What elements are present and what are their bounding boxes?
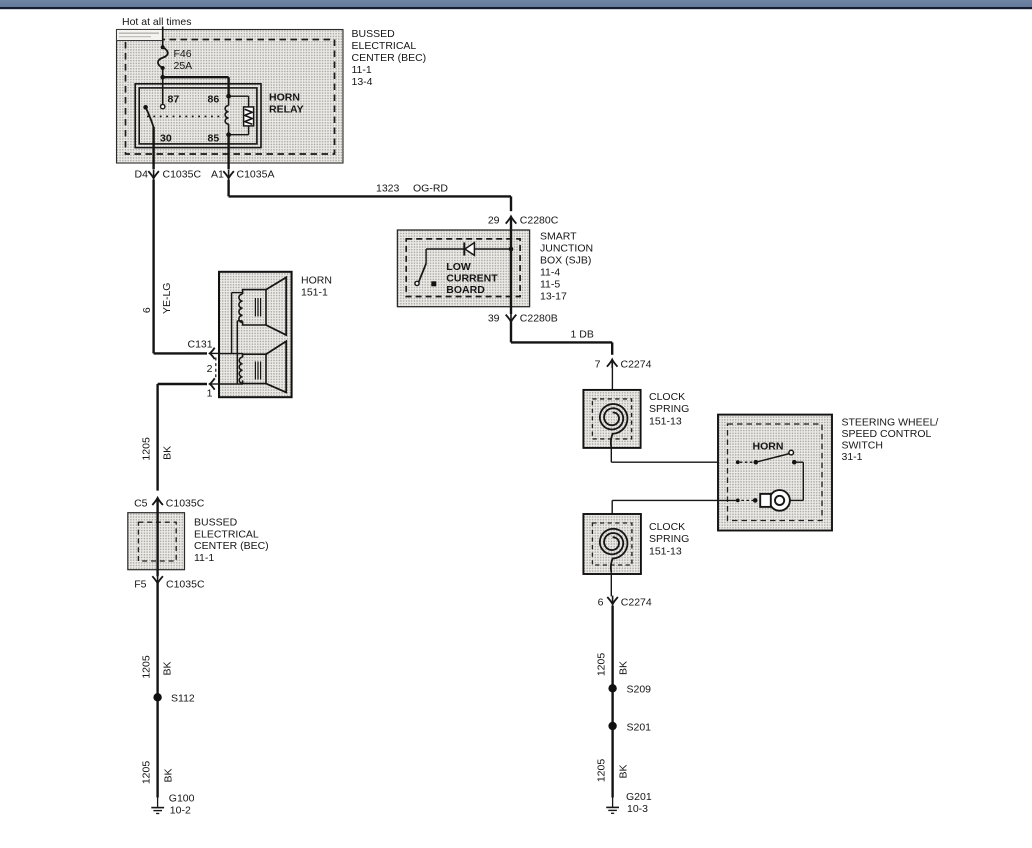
svg-text:13-17: 13-17	[540, 291, 567, 303]
svg-text:D4: D4	[135, 169, 149, 181]
clock spring 1 box CLOCK SPRING 151-13	[583, 390, 640, 448]
clock spring 2 box CLOCK SPRING 151-13	[583, 514, 641, 574]
wire clock spring 2 to C2274	[610, 572, 612, 596]
svg-text:C131: C131	[188, 339, 213, 351]
relay resistor (parallel with coil)	[229, 95, 249, 97]
svg-text:2: 2	[207, 363, 213, 375]
BEC lower box BUSSED ELECTRICAL CENTER	[128, 513, 185, 570]
wire to horn pin 2	[154, 352, 207, 354]
wire A1 down	[227, 180, 229, 197]
horn internal wiring	[219, 353, 243, 355]
svg-text:11-4: 11-4	[540, 267, 560, 279]
svg-text:SPRING: SPRING	[649, 533, 689, 545]
connector C2280C pin 29	[506, 216, 517, 223]
svg-text:SPEED CONTROL: SPEED CONTROL	[842, 428, 932, 440]
svg-text:G201: G201	[626, 791, 652, 803]
svg-text:30: 30	[160, 133, 172, 145]
ground G100	[157, 798, 159, 808]
steering wheel switch box	[718, 415, 832, 531]
svg-text:JUNCTION: JUNCTION	[540, 243, 593, 255]
wire through SJB	[510, 230, 512, 307]
BEC header cell	[117, 30, 164, 41]
svg-text:C2274: C2274	[621, 597, 652, 609]
wire fuse to junction	[162, 68, 164, 77]
wire pin30 to D4	[152, 127, 154, 169]
svg-text:7: 7	[595, 358, 601, 370]
svg-text:Hot at all times: Hot at all times	[122, 16, 191, 28]
connector C1035C pin C5	[152, 498, 163, 505]
svg-text:ELECTRICAL: ELECTRICAL	[352, 40, 417, 52]
relay linkage dotted line	[147, 115, 224, 117]
horn switch contacts	[736, 460, 740, 464]
wire switch to horn pad	[794, 461, 803, 463]
connector C131 pin 2	[210, 348, 215, 359]
svg-text:1205: 1205	[595, 653, 607, 677]
svg-text:1 DB: 1 DB	[571, 329, 594, 341]
wire hot feed	[162, 27, 164, 48]
svg-text:BK: BK	[617, 661, 629, 675]
horn assembly box HORN 151-1	[219, 272, 292, 397]
wire 1 DB	[510, 321, 512, 342]
svg-text:11-1: 11-1	[352, 64, 372, 76]
svg-text:STEERING WHEEL/: STEERING WHEEL/	[842, 417, 939, 429]
svg-text:11-5: 11-5	[540, 279, 560, 291]
svg-text:25A: 25A	[174, 60, 193, 72]
fuse F46 25A	[161, 45, 165, 49]
svg-text:C1035C: C1035C	[166, 579, 205, 591]
diode CR1	[463, 242, 465, 255]
splice S112	[153, 693, 161, 701]
svg-text:C1035C: C1035C	[166, 498, 205, 510]
svg-text:YE-LG: YE-LG	[161, 283, 173, 315]
BEC box (bussed electrical center)	[117, 30, 344, 164]
svg-text:CENTER (BEC): CENTER (BEC)	[352, 52, 427, 64]
wire 1205 BK left	[156, 583, 158, 798]
svg-text:C1035C: C1035C	[163, 169, 202, 181]
svg-text:39: 39	[488, 313, 500, 325]
connector C1035C pin D4	[148, 171, 159, 178]
svg-text:CLOCK: CLOCK	[649, 391, 685, 403]
svg-text:C5: C5	[134, 498, 148, 510]
svg-text:BUSSED: BUSSED	[194, 517, 238, 529]
svg-text:BOX (SJB): BOX (SJB)	[540, 255, 591, 267]
svg-text:F46: F46	[174, 48, 192, 60]
svg-text:HORN: HORN	[301, 275, 332, 287]
relay pin 87	[162, 77, 164, 104]
wire 1205 BK right	[611, 606, 613, 798]
svg-text:HORN: HORN	[753, 441, 784, 453]
junction fuse output	[160, 75, 165, 80]
svg-text:11-1: 11-1	[194, 552, 214, 564]
svg-text:86: 86	[208, 94, 220, 106]
svg-text:SPRING: SPRING	[649, 403, 689, 415]
svg-text:S209: S209	[627, 684, 652, 696]
relay switch arm	[143, 105, 148, 110]
connector C2274 pin 7	[607, 360, 618, 367]
wire horn pin1 return	[158, 383, 207, 385]
wire 6 YE-LG vertical	[152, 180, 154, 354]
clock spring 1 spiral	[600, 404, 628, 448]
svg-text:HORN: HORN	[269, 92, 300, 104]
svg-text:BK: BK	[161, 446, 173, 460]
svg-text:151-13: 151-13	[649, 415, 682, 427]
svg-text:BK: BK	[617, 764, 629, 778]
svg-text:BK: BK	[161, 661, 173, 675]
svg-text:1323: 1323	[376, 183, 400, 195]
svg-text:BK: BK	[163, 768, 175, 782]
horn 2 (lower trumpet)	[243, 354, 266, 383]
svg-text:151-1: 151-1	[301, 287, 328, 299]
wire 1205 BK to C5	[156, 384, 158, 491]
svg-text:1: 1	[207, 388, 213, 400]
svg-text:S112: S112	[171, 693, 195, 705]
svg-text:SWITCH: SWITCH	[842, 440, 883, 452]
svg-text:6: 6	[598, 597, 604, 609]
svg-text:13-4: 13-4	[352, 76, 373, 88]
splice S201	[608, 722, 616, 730]
svg-text:F5: F5	[134, 579, 146, 591]
svg-text:C2280B: C2280B	[520, 313, 558, 325]
svg-text:C2274: C2274	[621, 358, 652, 370]
relay coil	[228, 96, 230, 105]
svg-text:1205: 1205	[140, 761, 152, 785]
svg-text:1205: 1205	[140, 437, 152, 461]
SJB box SMART JUNCTION BOX	[397, 230, 529, 307]
SJB switch contact	[425, 249, 427, 264]
header bar	[0, 0, 1032, 7]
ground G201	[612, 798, 614, 808]
svg-text:29: 29	[488, 215, 500, 227]
connector C1035C pin F5	[152, 576, 163, 583]
svg-text:C2280C: C2280C	[520, 215, 559, 227]
svg-text:1205: 1205	[140, 655, 152, 679]
wire pin85 to A1	[227, 135, 229, 170]
wire into clock spring 1	[611, 360, 613, 414]
connector C131 pin 1	[210, 378, 215, 389]
splice S209	[608, 684, 616, 692]
svg-text:G100: G100	[169, 793, 195, 805]
wire through BEC lower	[156, 498, 158, 576]
svg-text:A1: A1	[211, 169, 224, 181]
svg-text:RELAY: RELAY	[269, 104, 304, 116]
svg-text:CENTER (BEC): CENTER (BEC)	[194, 540, 269, 552]
svg-text:1205: 1205	[595, 759, 607, 783]
horn 1 (upper trumpet)	[243, 290, 266, 325]
svg-text:31-1: 31-1	[842, 451, 863, 463]
wire junction to coil branch	[163, 76, 229, 78]
connector C131 bracket dashes	[215, 358, 217, 381]
svg-text:S201: S201	[627, 722, 652, 734]
svg-text:ELECTRICAL: ELECTRICAL	[194, 528, 259, 540]
svg-text:OG-RD: OG-RD	[413, 183, 448, 195]
connector C1035A pin A1	[223, 171, 234, 178]
SJB internal circuit	[426, 248, 511, 250]
svg-text:6: 6	[141, 307, 153, 313]
svg-text:151-13: 151-13	[649, 545, 682, 557]
svg-text:CURRENT: CURRENT	[446, 272, 498, 284]
svg-text:LOW: LOW	[446, 261, 471, 273]
svg-text:CLOCK: CLOCK	[649, 521, 685, 533]
svg-text:C1035A: C1035A	[237, 169, 275, 181]
svg-text:10-2: 10-2	[170, 805, 191, 817]
svg-text:BUSSED: BUSSED	[352, 28, 396, 40]
relay K1 HORN RELAY box	[135, 84, 261, 148]
svg-text:87: 87	[168, 94, 180, 106]
svg-text:BOARD: BOARD	[446, 284, 485, 296]
connector C2280B pin 39	[506, 315, 517, 322]
wire clock spring 1 to switch	[610, 448, 612, 462]
svg-text:85: 85	[208, 133, 220, 145]
clock spring 2 spiral	[600, 529, 628, 573]
wire 1323 OG-RD horizontal	[229, 195, 511, 197]
svg-text:10-3: 10-3	[627, 803, 648, 815]
svg-text:SMART: SMART	[540, 231, 577, 243]
connector C2274 pin 6	[607, 597, 618, 604]
wire down to C2280C	[510, 196, 512, 211]
horn pad symbol	[769, 490, 790, 511]
wire return to clock spring 2	[612, 499, 738, 501]
